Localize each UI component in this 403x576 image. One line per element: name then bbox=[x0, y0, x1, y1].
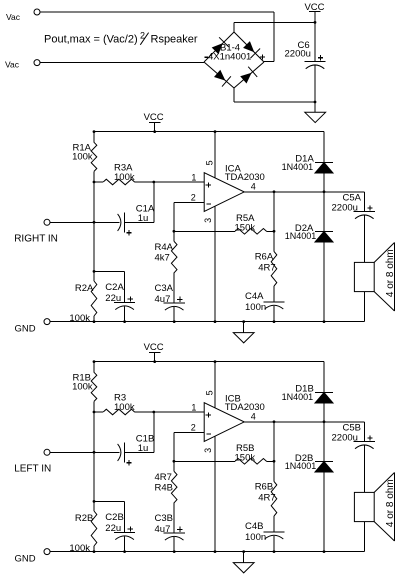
resistor R2B 100k bbox=[69, 501, 96, 554]
junction bbox=[242, 550, 245, 553]
svg-text:R2A: R2A bbox=[75, 283, 94, 294]
op-amp plus input mark bbox=[206, 414, 211, 416]
wire pin 2 bbox=[174, 201, 204, 203]
resistor R4A/4k7 bbox=[155, 231, 178, 272]
capacitor C3A 4u7 bbox=[155, 283, 185, 310]
diode D2A 1N4001 bbox=[285, 223, 333, 242]
wire top supply rail bbox=[94, 361, 324, 363]
capacitor C6 2200u bbox=[285, 40, 326, 68]
bridge diode top-right (top to right) bbox=[243, 41, 254, 52]
svg-text:Vac: Vac bbox=[6, 12, 21, 22]
svg-text:C2B: C2B bbox=[105, 512, 123, 523]
svg-text:1N4001: 1N4001 bbox=[282, 392, 314, 402]
wire R3 to pin 1 bbox=[135, 181, 205, 183]
formula Pout,max = (Vac/2)^2 / Rspeaker bbox=[44, 30, 198, 45]
junction bbox=[214, 320, 217, 323]
wire bridge top vertex to VCC node bbox=[233, 22, 235, 32]
pin 5 wire to rail bbox=[214, 132, 216, 178]
svg-text:150k: 150k bbox=[235, 223, 256, 234]
wire bbox=[273, 306, 275, 322]
op-amp plus input mark bbox=[206, 184, 211, 186]
wire R3 to pin 1 bbox=[135, 411, 205, 413]
capacitor C3B 4u7 bbox=[155, 513, 185, 540]
VCC symbol channel B bbox=[144, 342, 164, 353]
svg-text:1N4001: 1N4001 bbox=[282, 162, 314, 172]
terminal Vac top bbox=[34, 9, 40, 15]
wire bbox=[173, 273, 175, 303]
svg-text:100k: 100k bbox=[72, 382, 93, 393]
junction bbox=[123, 320, 126, 323]
wire bbox=[273, 12, 275, 62]
pin 3 wire to ground rail bbox=[214, 436, 216, 551]
junction node pin1/R3/C1 bbox=[152, 411, 155, 414]
svg-text:R2B: R2B bbox=[75, 513, 93, 524]
wire input to C1 bbox=[50, 221, 119, 223]
wire bbox=[153, 412, 155, 452]
bridge minus mark bbox=[204, 56, 208, 58]
svg-text:5: 5 bbox=[205, 390, 215, 395]
capacitor C2A 22u bbox=[94, 271, 135, 321]
svg-text:R6B: R6B bbox=[255, 482, 273, 493]
wire C6 to ground bbox=[314, 66, 316, 113]
resistor R5A 150k feedback bbox=[174, 213, 274, 234]
wire bbox=[363, 216, 365, 263]
svg-text:4: 4 bbox=[251, 181, 256, 191]
junction bbox=[314, 21, 317, 24]
svg-text:100k: 100k bbox=[69, 543, 90, 554]
terminal RIGHT IN bbox=[44, 219, 50, 225]
wire bbox=[93, 171, 95, 182]
bridge diode bottom-right (bottom to right) bbox=[240, 73, 251, 84]
wire bbox=[363, 522, 365, 552]
wire bbox=[153, 182, 155, 222]
bridge plus mark bbox=[260, 56, 265, 58]
resistor R3 100k bbox=[94, 393, 135, 415]
terminal GND channel A bbox=[44, 319, 50, 325]
junction bbox=[93, 550, 96, 553]
wire top supply rail bbox=[94, 131, 324, 133]
svg-text:VCC: VCC bbox=[144, 112, 164, 123]
svg-text:Rspeaker: Rspeaker bbox=[151, 34, 198, 46]
wire bbox=[93, 132, 95, 143]
wire rail to D1 bbox=[323, 132, 325, 163]
wire input to C1 bbox=[50, 451, 119, 453]
capacitor C1A 1u bbox=[118, 204, 155, 236]
junction bbox=[153, 130, 156, 133]
junction bbox=[273, 550, 276, 553]
wire bbox=[323, 173, 325, 192]
wire C1 to node bbox=[124, 451, 154, 453]
bridge diode bottom-left (left to bottom) bbox=[214, 70, 225, 81]
junction bbox=[323, 190, 326, 193]
svg-text:4R7: 4R7 bbox=[258, 493, 275, 504]
svg-text:1N4001: 1N4001 bbox=[285, 231, 317, 241]
svg-text:22u: 22u bbox=[105, 523, 121, 534]
wire output to C5 bbox=[363, 192, 365, 212]
wire pin2 feedback bbox=[173, 202, 175, 231]
svg-text:R4B: R4B bbox=[155, 482, 173, 493]
junction node pin1/R3/C1 bbox=[152, 181, 155, 184]
pin 5 wire to rail bbox=[214, 362, 216, 408]
wire C1 to node bbox=[124, 221, 154, 223]
wire bbox=[173, 307, 175, 322]
svg-text:100k: 100k bbox=[114, 402, 135, 413]
svg-text:4 or 8 ohm: 4 or 8 ohm bbox=[385, 249, 396, 297]
speaker right speaker 4 or 8 ohm bbox=[354, 243, 396, 312]
junction bbox=[93, 500, 96, 503]
svg-text:2: 2 bbox=[191, 192, 196, 202]
wire bbox=[234, 21, 315, 23]
resistor R3A 100k bbox=[94, 163, 135, 185]
svg-text:22u: 22u bbox=[105, 293, 121, 304]
op-amp minus input mark bbox=[206, 203, 210, 205]
wire bbox=[173, 537, 175, 552]
wire VCC to C6 bbox=[314, 12, 316, 62]
junction bbox=[173, 460, 176, 463]
junction bbox=[93, 320, 96, 323]
wire feedback column bbox=[273, 422, 275, 482]
resistor R2A 100k bbox=[69, 271, 96, 324]
junction bbox=[173, 550, 176, 553]
wire bbox=[363, 292, 365, 322]
op-amp ICB TDA2030 bbox=[204, 393, 265, 441]
svg-text:C4B: C4B bbox=[245, 521, 263, 532]
svg-text:C3A: C3A bbox=[155, 283, 174, 294]
wire bbox=[323, 242, 325, 322]
junction bbox=[93, 411, 96, 414]
svg-text:3: 3 bbox=[203, 218, 213, 223]
resistor 4R7/R4B bbox=[155, 461, 178, 502]
wire bbox=[323, 403, 325, 422]
junction bbox=[173, 320, 176, 323]
svg-text:1N4001: 1N4001 bbox=[285, 461, 317, 471]
capacitor C4B 100n bbox=[245, 521, 285, 543]
svg-text:100n: 100n bbox=[245, 532, 266, 543]
wire bbox=[173, 503, 175, 533]
junction bbox=[93, 130, 96, 133]
svg-text:100k: 100k bbox=[72, 152, 93, 163]
junction bbox=[214, 360, 217, 363]
diode D2B 1N4001 bbox=[285, 453, 333, 472]
junction bbox=[93, 451, 96, 454]
junction bbox=[273, 420, 276, 423]
svg-text:LEFT IN: LEFT IN bbox=[14, 463, 51, 474]
svg-text:GND: GND bbox=[15, 554, 36, 565]
wire bbox=[363, 446, 365, 493]
junction bbox=[323, 320, 326, 323]
resistor R6A 4R7 bbox=[255, 251, 277, 286]
svg-text:4X1n4001: 4X1n4001 bbox=[208, 52, 251, 63]
pin 3 wire to ground rail bbox=[214, 206, 216, 322]
junction bbox=[214, 550, 217, 553]
wire bottom ground rail bbox=[50, 551, 364, 553]
svg-text:3: 3 bbox=[203, 448, 213, 453]
resistor R6B 4R7 bbox=[255, 481, 277, 516]
wire bbox=[323, 472, 325, 552]
capacitor C2B 22u bbox=[94, 501, 135, 551]
wire op-amp output row bbox=[244, 421, 364, 423]
svg-text:2: 2 bbox=[191, 422, 196, 432]
junction bbox=[273, 190, 276, 193]
svg-text:C4A: C4A bbox=[245, 291, 264, 302]
wire bbox=[264, 61, 274, 63]
svg-text:VCC: VCC bbox=[144, 342, 164, 353]
junction bbox=[273, 460, 276, 463]
junction bbox=[173, 230, 176, 233]
svg-text:2200u: 2200u bbox=[285, 49, 311, 60]
wire feedback column bbox=[273, 192, 275, 252]
terminal LEFT IN bbox=[44, 449, 50, 455]
wire Vac bottom to bridge - bbox=[40, 62, 204, 64]
svg-text:4u7: 4u7 bbox=[155, 294, 171, 305]
svg-text:Pout,max = (Vac/2): Pout,max = (Vac/2) bbox=[44, 34, 138, 46]
junction bbox=[93, 360, 96, 363]
svg-text:150k: 150k bbox=[235, 453, 256, 464]
ground symbol channel A bbox=[233, 322, 254, 343]
svg-text:4R7: 4R7 bbox=[258, 263, 275, 274]
svg-text:TDA2030: TDA2030 bbox=[225, 402, 265, 413]
terminal GND channel B bbox=[44, 549, 50, 555]
junction bbox=[323, 420, 326, 423]
resistor R5B 150k feedback bbox=[174, 443, 274, 464]
op-amp ICA TDA2030 bbox=[204, 163, 265, 211]
wire bbox=[273, 516, 275, 532]
wire bbox=[323, 422, 325, 462]
diode D1A 1N4001 bbox=[282, 153, 333, 173]
wire bbox=[93, 412, 95, 501]
wire output to C5 bbox=[363, 422, 365, 442]
svg-text:Vac: Vac bbox=[5, 60, 20, 70]
wire bottom to C6 bbox=[234, 101, 315, 103]
junction bbox=[214, 130, 217, 133]
op-amp minus input mark bbox=[206, 433, 210, 435]
terminal Vac bottom bbox=[34, 60, 40, 66]
wire VCC stub bbox=[154, 122, 156, 131]
wire bbox=[93, 362, 95, 373]
svg-text:4 or 8 ohm: 4 or 8 ohm bbox=[385, 479, 396, 527]
junction bbox=[314, 101, 317, 104]
wire bbox=[93, 182, 95, 271]
ground symbol channel B bbox=[233, 552, 254, 573]
wire Vac top to bridge + bbox=[40, 11, 274, 13]
svg-text:C3B: C3B bbox=[155, 513, 173, 524]
capacitor C5B 2200u bbox=[332, 423, 375, 449]
capacitor C1B 1u bbox=[118, 434, 155, 466]
wire rail to D1 bbox=[323, 362, 325, 393]
svg-text:4u7: 4u7 bbox=[155, 524, 171, 535]
capacitor C5A 2200u bbox=[332, 193, 375, 219]
bridge diode top-left (left to top) bbox=[212, 43, 223, 54]
junction bbox=[323, 550, 326, 553]
wire bbox=[323, 192, 325, 232]
junction bbox=[273, 320, 276, 323]
speaker left speaker 4 or 8 ohm bbox=[354, 473, 396, 542]
wire bridge bottom vertex down bbox=[233, 88, 235, 102]
power VCC symbol top bbox=[304, 2, 324, 13]
svg-text:4k7: 4k7 bbox=[155, 252, 170, 263]
junction bbox=[93, 221, 96, 224]
wire bbox=[273, 286, 275, 302]
svg-text:100n: 100n bbox=[245, 302, 266, 313]
svg-text:1: 1 bbox=[191, 173, 196, 183]
svg-text:R6A: R6A bbox=[255, 252, 274, 263]
VCC symbol channel A bbox=[144, 112, 164, 123]
junction bbox=[93, 270, 96, 273]
junction bbox=[273, 230, 276, 233]
wire VCC stub bbox=[154, 352, 156, 361]
wire bbox=[93, 401, 95, 412]
junction bbox=[242, 320, 245, 323]
svg-text:RIGHT IN: RIGHT IN bbox=[14, 233, 58, 244]
bridge rectifier B1-4 diamond bbox=[204, 32, 264, 88]
junction bbox=[123, 550, 126, 553]
resistor R1B 100k bbox=[72, 372, 97, 401]
junction bbox=[93, 181, 96, 184]
svg-text:2200u: 2200u bbox=[332, 433, 358, 444]
ground power section bbox=[305, 112, 326, 122]
diode D1B 1N4001 bbox=[282, 383, 333, 403]
wire op-amp output row bbox=[244, 191, 364, 193]
wire bottom ground rail bbox=[50, 321, 364, 323]
capacitor C4A 100n bbox=[245, 291, 285, 313]
svg-text:GND: GND bbox=[15, 324, 36, 335]
svg-text:4: 4 bbox=[251, 411, 256, 421]
svg-text:100k: 100k bbox=[69, 313, 90, 324]
svg-text:100k: 100k bbox=[114, 172, 135, 183]
svg-text:2200u: 2200u bbox=[332, 203, 358, 214]
resistor R1A 100k bbox=[72, 142, 97, 171]
svg-text:1: 1 bbox=[191, 403, 196, 413]
wire pin 2 bbox=[174, 431, 204, 433]
svg-text:C2A: C2A bbox=[105, 282, 124, 293]
svg-text:TDA2030: TDA2030 bbox=[225, 172, 265, 183]
wire bbox=[273, 536, 275, 552]
wire pin2 feedback bbox=[173, 432, 175, 461]
svg-text:5: 5 bbox=[205, 160, 215, 165]
junction bbox=[153, 360, 156, 363]
